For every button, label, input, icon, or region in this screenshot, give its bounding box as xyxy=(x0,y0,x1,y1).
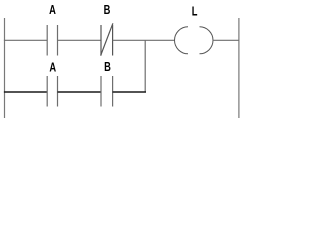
contact A rung1 xyxy=(47,25,57,56)
coil L xyxy=(175,27,214,54)
svg-text:A: A xyxy=(49,4,56,18)
wire rung2 seg3 xyxy=(113,91,146,93)
left power rail xyxy=(4,18,6,118)
svg-text:A: A xyxy=(49,61,56,75)
contact B rung1 (normally closed) xyxy=(101,23,113,55)
svg-text:B: B xyxy=(104,61,111,75)
node junction branch xyxy=(144,40,146,92)
wire rung1 seg3 xyxy=(113,39,175,41)
label B rung1 xyxy=(104,3,111,17)
wire rung2 seg1 xyxy=(4,91,47,93)
label A rung1 xyxy=(49,4,56,18)
svg-text:B: B xyxy=(104,3,111,17)
wire rung2 seg2 xyxy=(58,91,102,93)
label B rung2 xyxy=(104,61,111,75)
wire rung1 seg2 xyxy=(58,39,102,41)
contact B rung2 xyxy=(101,76,113,107)
wire rung1 seg4 xyxy=(213,39,239,41)
right power rail xyxy=(238,18,240,118)
svg-text:L: L xyxy=(192,5,198,19)
contact A rung2 xyxy=(47,76,57,107)
wire rung1 seg1 xyxy=(4,39,47,41)
label L xyxy=(192,5,198,19)
label A rung2 xyxy=(49,61,56,75)
